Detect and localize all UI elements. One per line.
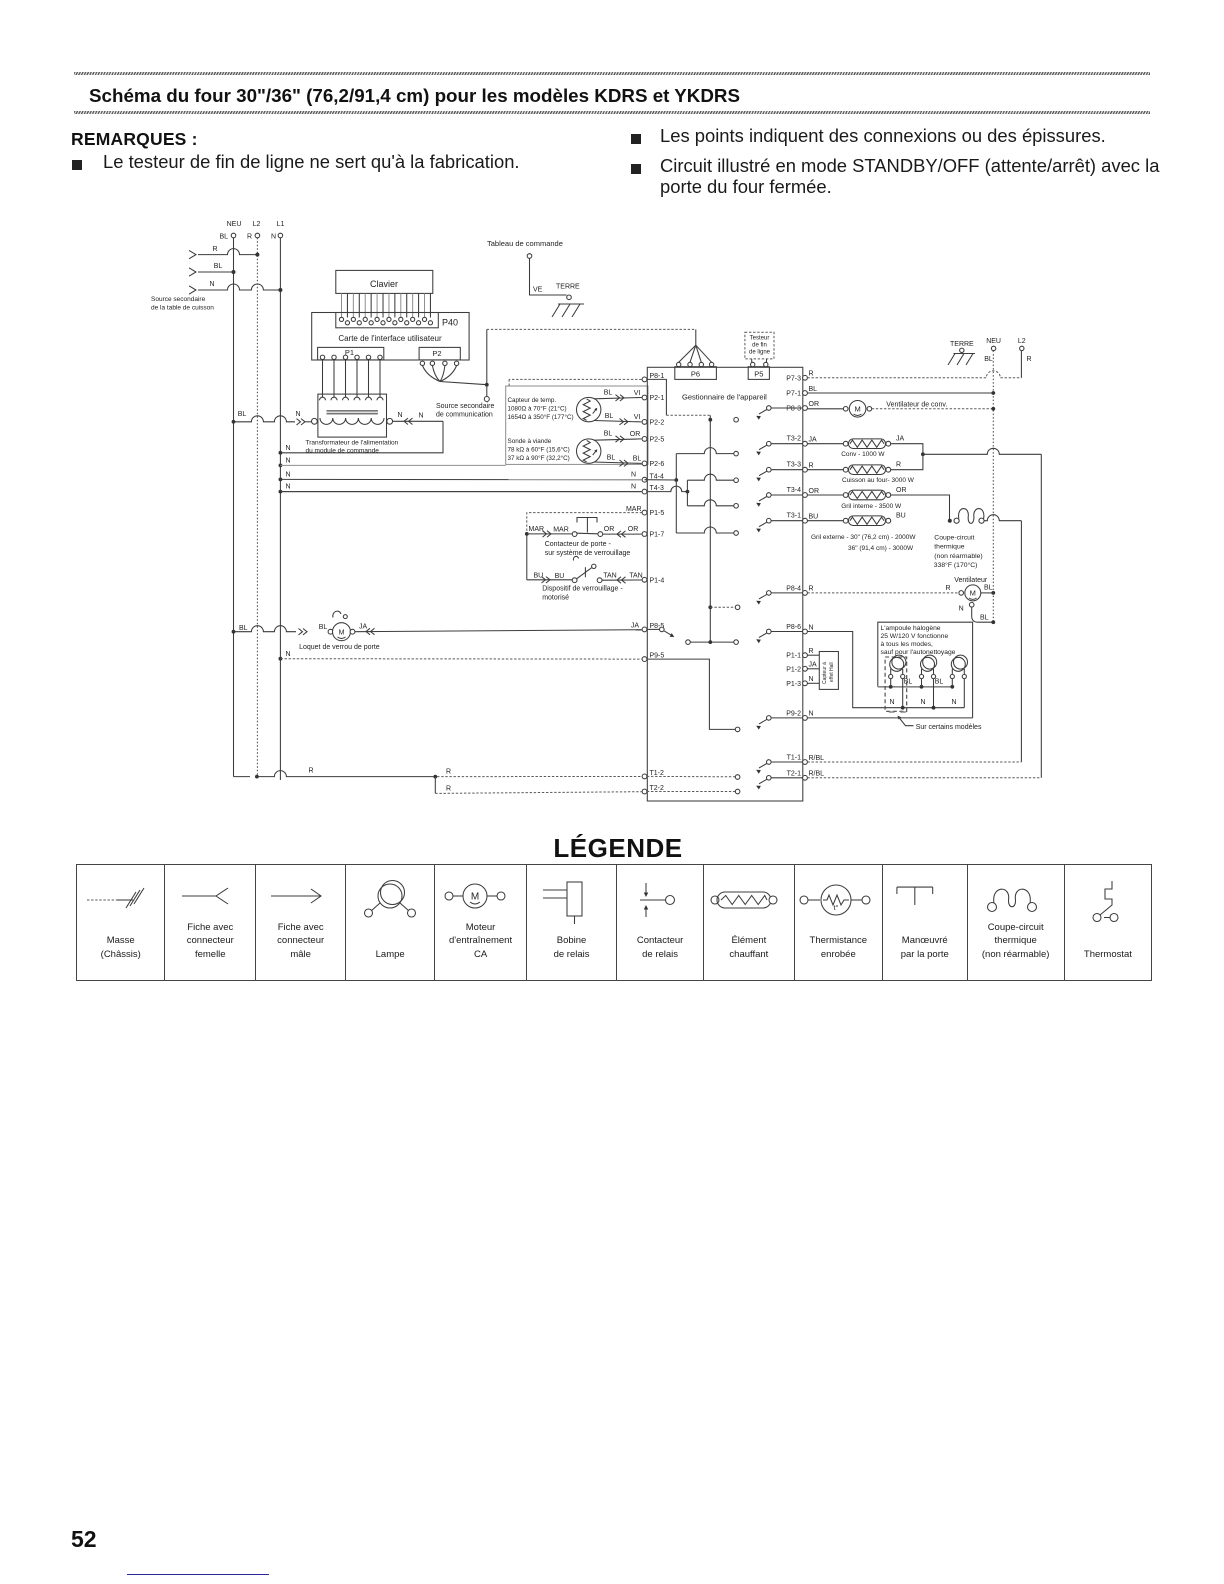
carte interface box <box>312 313 469 361</box>
svg-text:de la table de cuisson: de la table de cuisson <box>151 305 214 312</box>
svg-text:Ventilateur de conv.: Ventilateur de conv. <box>886 402 947 409</box>
pin P8-3 <box>786 406 807 413</box>
net label R/BL at T2-1 <box>809 771 825 778</box>
svg-text:JA: JA <box>631 622 640 629</box>
pin T4-3 <box>642 485 664 494</box>
legend: fiche male symbol <box>255 865 345 980</box>
wire P7-3 to L2 <box>807 371 1021 378</box>
connector P5 pins <box>751 362 769 366</box>
pin T1-2 <box>642 770 664 779</box>
coupe-circuit text <box>934 535 983 570</box>
ampoule text <box>881 625 956 656</box>
svg-text:Transformateur de l'alimentati: Transformateur de l'alimentation <box>306 440 399 447</box>
svg-text:M: M <box>339 629 345 636</box>
svg-text:motorisé: motorisé <box>542 595 569 602</box>
svg-text:OR: OR <box>628 526 639 533</box>
pin P8-5 <box>642 623 664 632</box>
svg-text:N: N <box>295 411 300 418</box>
svg-text:Gestionnaire de l'appareil: Gestionnaire de l'appareil <box>682 393 767 402</box>
net label JA at T3-2 <box>809 437 818 444</box>
svg-text:N: N <box>286 445 291 452</box>
rail BL vertical <box>233 238 235 777</box>
wire T4-4 junction <box>645 478 679 482</box>
svg-text:BU: BU <box>809 514 819 521</box>
terminal NEU <box>219 233 235 240</box>
svg-text:N: N <box>920 699 925 706</box>
svg-text:JA: JA <box>359 623 368 630</box>
svg-text:P2-1: P2-1 <box>650 395 665 402</box>
rail T4-3 internal <box>686 480 688 506</box>
transformer core <box>327 411 378 414</box>
ground symbol right <box>948 354 975 366</box>
svg-text:T3-3: T3-3 <box>787 462 802 469</box>
pin T3-1 <box>787 513 808 524</box>
svg-text:R: R <box>809 648 814 655</box>
wire latch motor to P8-5 <box>355 622 642 634</box>
label TERRE <box>556 284 580 291</box>
pin P1-4 <box>642 577 664 584</box>
svg-text:P8-4: P8-4 <box>786 585 801 592</box>
svg-text:Sonde à viande: Sonde à viande <box>508 438 552 445</box>
connector P40 strip <box>336 313 439 328</box>
wire BL to transformer <box>232 411 312 425</box>
wires lamp BL drops <box>891 679 953 687</box>
svg-text:M: M <box>970 589 976 598</box>
svg-text:36" (91,4 cm) - 3000W: 36" (91,4 cm) - 3000W <box>848 545 914 552</box>
svg-text:OR: OR <box>809 401 820 408</box>
pin T3-2 <box>787 436 808 447</box>
net label N at P9-2 <box>809 711 814 718</box>
ground symbol left <box>552 304 584 317</box>
wire comm source stub <box>484 387 489 402</box>
testeur de fin de ligne box <box>745 332 774 359</box>
svg-text:M: M <box>854 405 860 414</box>
svg-text:BL: BL <box>984 585 993 592</box>
wire P6 fan <box>679 345 712 362</box>
thermistor oven sensor <box>577 397 601 421</box>
pin P8-1 <box>642 373 664 382</box>
option ticks <box>889 711 906 713</box>
transformer primary wires <box>320 360 384 401</box>
label TERRE right <box>950 341 974 352</box>
capteur de temp text <box>508 397 574 421</box>
label P40 <box>442 318 458 328</box>
svg-text:BU: BU <box>534 573 544 580</box>
wire T2-1 to rail A <box>807 777 1041 779</box>
svg-text:P6: P6 <box>691 370 700 379</box>
transformer terminals <box>312 418 393 424</box>
rail N vertical <box>279 238 281 780</box>
svg-text:R/BL: R/BL <box>809 755 825 762</box>
connector P2 box <box>419 347 460 360</box>
node L2 label <box>253 221 261 228</box>
wire P8-6 to lamp bus <box>807 632 885 708</box>
net label BU at T3-1 <box>809 514 819 521</box>
wire M3 N to NEU <box>959 602 996 624</box>
svg-text:L2: L2 <box>1018 338 1026 345</box>
svg-text:L2: L2 <box>253 221 261 228</box>
svg-text:BL: BL <box>239 625 248 632</box>
svg-text:R/BL: R/BL <box>809 771 825 778</box>
pin P1-2 <box>786 666 807 673</box>
svg-text:N: N <box>809 676 814 683</box>
svg-text:Contacteur de porte -: Contacteur de porte - <box>545 541 612 548</box>
bus vertical internal <box>709 420 711 642</box>
connector P1 box <box>318 347 384 360</box>
sur certains modeles text <box>916 724 982 731</box>
contact K-P9-2 <box>735 716 802 732</box>
label MAR <box>529 526 545 533</box>
svg-text:de communication: de communication <box>436 412 493 419</box>
wire BL rail elbow <box>234 776 251 778</box>
contact K-T3-3 <box>734 467 803 482</box>
svg-text:338°F (170°C): 338°F (170°C) <box>934 561 978 569</box>
net label R at P7-3 <box>809 371 814 378</box>
lamp E1 <box>889 655 906 679</box>
legend: lampe symbol <box>345 865 434 980</box>
svg-text:T3-2: T3-2 <box>787 436 802 443</box>
wire P8-1 internal <box>647 379 710 419</box>
legend: coupe-circuit thermique symbol <box>967 865 1064 980</box>
element conv 1000W <box>807 436 904 458</box>
wire N to T4-4 <box>279 472 642 482</box>
legend: contacteur de relais symbol <box>616 865 703 980</box>
svg-text:25 W/120 V fonctionne: 25 W/120 V fonctionne <box>881 633 949 640</box>
source secondaire comm text <box>436 403 494 419</box>
capteur effet hall box <box>819 652 838 690</box>
svg-text:à tous les modes,: à tous les modes, <box>881 641 934 648</box>
svg-text:Loquet de verrou de porte: Loquet de verrou de porte <box>299 644 380 651</box>
wire T1-1 to rail B <box>807 761 1021 763</box>
svg-text:Clavier: Clavier <box>370 279 398 289</box>
svg-text:BL: BL <box>604 389 613 396</box>
svg-text:BL: BL <box>238 411 247 418</box>
legend: thermostat symbol <box>1064 865 1151 980</box>
svg-text:BL: BL <box>904 679 913 686</box>
svg-text:BL: BL <box>319 624 328 631</box>
svg-text:M: M <box>470 892 478 903</box>
svg-text:N: N <box>271 234 276 241</box>
svg-text:de fin: de fin <box>752 343 767 349</box>
feed T3-2 <box>676 448 734 454</box>
coupe-circuit thermique F1 <box>954 509 984 524</box>
wire comm bus riser <box>487 329 696 384</box>
wire F1 to rail B <box>984 515 1021 762</box>
wire T4-3 junction <box>647 486 689 493</box>
svg-text:N: N <box>951 699 956 706</box>
svg-text:N: N <box>959 606 964 613</box>
pin P8-4 <box>786 585 807 595</box>
switch latch motorized <box>527 556 596 583</box>
svg-text:Tableau de commande: Tableau de commande <box>487 239 563 248</box>
ventilateur label <box>954 577 988 584</box>
wire junction to rail A <box>923 448 1041 778</box>
svg-text:P8-6: P8-6 <box>786 624 801 631</box>
wire P2 to comm bus <box>440 382 489 387</box>
node L1 label <box>277 221 285 228</box>
element gril externe <box>807 513 905 526</box>
svg-text:Ventilateur: Ventilateur <box>954 577 988 584</box>
svg-text:T3-4: T3-4 <box>787 487 802 494</box>
wire N row to sensor box <box>279 458 506 468</box>
wire sensor to P2-2 <box>594 413 642 425</box>
wires P1 to hall <box>807 655 819 683</box>
lamp E3 <box>950 655 967 679</box>
sonde a viande text <box>508 438 570 462</box>
gestionnaire label <box>682 393 767 402</box>
svg-text:t°: t° <box>834 904 839 912</box>
feed T3-4 <box>687 500 733 506</box>
legend: thermistance enrobee symbol <box>794 865 882 980</box>
wire M3 to NEU <box>981 591 995 595</box>
feed T3-3 <box>687 474 733 480</box>
svg-text:MAR: MAR <box>553 527 569 534</box>
ventilateur de conv label <box>886 402 947 409</box>
svg-text:R: R <box>212 246 217 253</box>
pin P1-3 <box>786 681 807 688</box>
terminal L2 <box>247 233 260 240</box>
junction main bus top <box>708 418 712 422</box>
net label BL at P7-1 <box>809 386 818 393</box>
thermistor meat probe <box>577 439 601 463</box>
pin P9-5 <box>642 653 664 662</box>
svg-text:P2-6: P2-6 <box>650 461 665 468</box>
terminal L1 <box>271 233 283 240</box>
wire M1 to NEU <box>872 407 995 411</box>
svg-text:L'ampoule halogène: L'ampoule halogène <box>881 625 941 632</box>
svg-text:BL: BL <box>809 386 818 393</box>
net label OR at P8-3 <box>809 401 820 408</box>
legend: masse chassis symbol <box>77 865 164 980</box>
rail L2 right stub <box>1020 351 1022 378</box>
legend: fiche femelle symbol <box>164 865 255 980</box>
contact K-T1-1 <box>735 760 802 780</box>
svg-text:Gril externe - 30" (76,2 cm) -: Gril externe - 30" (76,2 cm) - 2000W <box>811 534 916 541</box>
wire P7-1 to NEU <box>807 391 995 395</box>
svg-text:R: R <box>945 585 950 592</box>
net label N at P8-6 <box>809 624 814 631</box>
svg-text:N: N <box>631 472 636 479</box>
svg-text:N: N <box>286 651 291 658</box>
rail NEU right <box>992 351 994 623</box>
pin P2-1 <box>642 395 664 402</box>
fan motor M3 <box>807 585 992 601</box>
contact K-P8-3 <box>734 406 803 422</box>
svg-text:thermique: thermique <box>934 544 964 551</box>
gestionnaire de l appareil box <box>647 367 803 801</box>
wire transformer N return <box>279 412 444 455</box>
svg-text:R: R <box>308 768 313 775</box>
wire conv to junction <box>891 444 925 456</box>
svg-text:P1-5: P1-5 <box>650 510 665 517</box>
gril externe text <box>811 534 916 552</box>
pin P8-6 <box>786 624 807 634</box>
svg-text:sur système de verrouillage: sur système de verrouillage <box>545 550 631 557</box>
svg-text:37 kΩ à 90°F (32,2°C): 37 kΩ à 90°F (32,2°C) <box>508 454 570 462</box>
fan motor conv M1 <box>807 401 871 418</box>
svg-text:T1-1: T1-1 <box>787 755 802 762</box>
pin P7-1 <box>786 391 807 398</box>
svg-text:R: R <box>896 462 901 469</box>
svg-text:P5: P5 <box>754 370 763 379</box>
source secondaire table text <box>151 296 214 312</box>
svg-text:du module de commande: du module de commande <box>306 448 380 455</box>
svg-text:Carte de l'interface utilisate: Carte de l'interface utilisateur <box>338 334 442 343</box>
contact K-T3-2 <box>734 441 803 456</box>
pin P2-5 <box>642 437 664 444</box>
transformer T1 box <box>318 394 387 437</box>
svg-text:VI: VI <box>634 414 641 421</box>
svg-text:Cuisson au four- 3000 W: Cuisson au four- 3000 W <box>842 477 915 484</box>
contact K-T2-1 <box>735 776 802 794</box>
wire BL feed <box>189 263 236 276</box>
loquet verrou text <box>299 644 380 651</box>
dispositif verrouillage text <box>542 586 623 602</box>
terminal TERRE <box>567 295 572 300</box>
svg-text:T3-1: T3-1 <box>787 513 802 520</box>
legend: moteur CA symbol <box>434 865 526 980</box>
svg-text:Testeur: Testeur <box>750 336 770 342</box>
wire latch to P1-4 <box>597 572 643 583</box>
junction MAR <box>525 532 529 536</box>
wire N to P9-5 <box>279 651 642 661</box>
svg-text:P1-7: P1-7 <box>650 532 665 539</box>
svg-text:OR: OR <box>896 487 907 494</box>
lamp E2 <box>919 655 936 679</box>
wire N feed <box>189 281 282 294</box>
wire sensor to P2-1 <box>594 389 642 401</box>
legend: manoeuvre par la porte symbol <box>882 865 967 980</box>
svg-text:OR: OR <box>604 526 615 533</box>
pin P2-2 <box>642 420 664 427</box>
wire R to T1-2 <box>257 768 642 779</box>
clavier ribbon wires <box>342 293 431 317</box>
wire tableau to ground <box>530 258 567 295</box>
svg-text:BL: BL <box>607 454 616 461</box>
svg-text:R: R <box>446 769 451 776</box>
svg-text:JA: JA <box>896 436 905 443</box>
wire P9-5 internal <box>647 659 735 729</box>
sur certains modeles pointer <box>898 716 914 726</box>
contacteur de porte text <box>545 541 631 557</box>
latch motor M2 <box>328 623 355 641</box>
svg-text:N: N <box>286 484 291 491</box>
legend: bobine de relais symbol <box>526 865 616 980</box>
svg-text:BL: BL <box>214 263 223 270</box>
svg-text:N: N <box>809 711 814 718</box>
pin T2-2 <box>642 785 664 794</box>
svg-text:P2: P2 <box>432 349 441 358</box>
svg-text:P2-2: P2-2 <box>650 420 665 427</box>
wire R feed <box>189 246 259 259</box>
wire cuisson up <box>891 454 923 469</box>
feed P8-4 <box>708 605 735 609</box>
svg-text:TAN: TAN <box>603 572 616 579</box>
svg-text:R: R <box>1027 356 1032 363</box>
feed P8-6 <box>686 640 734 645</box>
wire BL lamp bus <box>878 685 954 689</box>
tableau de commande label <box>487 239 563 248</box>
wire probe to P2-6 <box>594 454 642 466</box>
contact K-T3-4 <box>734 493 803 508</box>
pin P1-1 <box>786 653 807 660</box>
svg-text:N: N <box>286 458 291 465</box>
clavier box <box>336 270 433 293</box>
connector P40 pins <box>339 317 432 325</box>
carte interface label <box>338 334 442 343</box>
sensor enclosure box <box>506 386 648 464</box>
svg-text:VE: VE <box>533 287 543 294</box>
rail L2 vertical dotted <box>256 238 258 777</box>
pin T1-1 <box>787 755 808 765</box>
svg-text:Coupe-circuit: Coupe-circuit <box>934 535 974 542</box>
wire N lamp bus <box>886 706 965 710</box>
svg-text:BL: BL <box>219 234 228 241</box>
terminal tableau <box>527 254 532 259</box>
net label OR at T3-4 <box>809 488 820 495</box>
svg-text:OR: OR <box>630 431 641 438</box>
feed T3-1 <box>676 527 734 533</box>
net label R at P8-4 <box>809 586 814 593</box>
svg-text:T2-1: T2-1 <box>787 770 802 777</box>
svg-text:1654Ω à 350°F (177°C): 1654Ω à 350°F (177°C) <box>508 413 574 421</box>
switch door contact <box>527 518 603 538</box>
element gril interne 3500W <box>807 487 906 510</box>
dashed option box <box>885 657 907 711</box>
svg-text:P2-5: P2-5 <box>650 437 665 444</box>
svg-text:MAR: MAR <box>626 506 642 513</box>
svg-text:N: N <box>209 281 214 288</box>
wire BL to latch motor <box>232 624 328 635</box>
svg-text:Source secondaire: Source secondaire <box>151 296 206 303</box>
svg-text:P9-2: P9-2 <box>786 710 801 717</box>
svg-text:N: N <box>286 472 291 479</box>
wire MAR to BU <box>526 534 528 580</box>
node NEU label <box>227 221 242 228</box>
svg-text:NEU: NEU <box>986 338 1001 345</box>
connector P2 pins <box>420 361 459 365</box>
wires lamp N drops <box>903 679 965 708</box>
svg-text:JA: JA <box>809 437 818 444</box>
svg-text:R: R <box>247 234 252 241</box>
wire R to T2-2 <box>435 777 641 794</box>
wire P9-2 to lamp box <box>807 717 972 719</box>
svg-text:NEU: NEU <box>227 221 242 228</box>
svg-text:1080Ω à 70°F (21°C): 1080Ω à 70°F (21°C) <box>508 404 567 412</box>
transformer label <box>306 440 399 455</box>
svg-text:N: N <box>418 413 423 420</box>
connector P1 pins <box>320 355 382 359</box>
contact K-P8-4 <box>735 591 802 610</box>
wire P8-1 to sensor box <box>509 379 641 386</box>
contact K-P8-6 <box>734 629 803 644</box>
terminal L2 right <box>1018 338 1032 363</box>
net label R/BL at T1-1 <box>809 755 825 762</box>
svg-text:sauf pour l'autonettoyage: sauf pour l'autonettoyage <box>881 649 956 656</box>
svg-text:JA: JA <box>809 662 818 669</box>
svg-text:Capteur à: Capteur à <box>822 662 828 684</box>
svg-text:Gril interne - 3500 W: Gril interne - 3500 W <box>841 503 902 510</box>
svg-text:de ligne: de ligne <box>749 350 771 356</box>
svg-text:Conv - 1000 W: Conv - 1000 W <box>841 451 885 458</box>
pin P2-6 <box>642 461 664 468</box>
svg-text:P1-2: P1-2 <box>786 666 801 673</box>
connector P6 pins <box>677 362 714 366</box>
svg-text:Capteur de temp.: Capteur de temp. <box>508 397 557 404</box>
junction gril externe <box>948 519 952 523</box>
svg-text:Sur certains modèles: Sur certains modèles <box>916 724 982 731</box>
net label R at T3-3 <box>809 463 814 470</box>
